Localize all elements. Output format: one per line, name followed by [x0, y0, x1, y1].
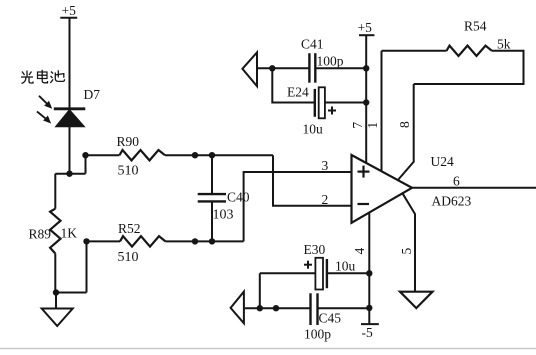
svg-text:103: 103 [213, 208, 234, 223]
svg-text:5: 5 [399, 248, 414, 255]
power -5 rail [361, 323, 379, 325]
ground (bottom left) [42, 309, 73, 327]
capacitor E30 (electrolytic) [315, 258, 327, 290]
ground arrow (bottom bypass) [231, 292, 244, 324]
wire R52 right lead [165, 240, 243, 242]
wire output pin 6 [412, 187, 536, 189]
wire R90 left lead [86, 154, 120, 156]
wire node A up to R90 rail [85, 155, 87, 174]
svg-text:U24: U24 [431, 154, 454, 169]
junction dot [269, 65, 275, 71]
svg-text:C41: C41 [301, 37, 324, 52]
resistor R54 [447, 46, 492, 56]
bottom separator [0, 348, 536, 350]
svg-text:D7: D7 [84, 87, 101, 102]
svg-text:510: 510 [118, 164, 139, 179]
svg-text:5k: 5k [497, 37, 511, 52]
wire R52 left lead [87, 240, 121, 242]
svg-text:4: 4 [352, 248, 367, 255]
svg-text:100p: 100p [304, 327, 331, 342]
ground node wire (bottom left) [55, 292, 86, 294]
svg-text:8: 8 [397, 121, 412, 128]
wire arrow to C45 [244, 307, 311, 309]
C40 top lead wire [211, 155, 213, 194]
capacitor C45 [311, 293, 318, 325]
svg-text:10u: 10u [335, 259, 356, 274]
junction dot R52 left [83, 238, 89, 244]
photocell label 光电池 (drawn glyphs) [21, 70, 65, 84]
photodiode D7 [54, 109, 86, 127]
wire E30 left lead [260, 272, 316, 274]
svg-text:E24: E24 [287, 85, 309, 100]
wire pin 5 [403, 193, 416, 291]
svg-text:10u: 10u [303, 122, 324, 137]
wire E30 right to pin4 rail [327, 272, 369, 274]
light arrow 2 into D7 [37, 112, 51, 124]
svg-text:AD623: AD623 [432, 194, 472, 209]
wire R90 right lead [165, 154, 273, 156]
ground arrow (top bypass) [242, 52, 257, 86]
op-amp U24 triangle [352, 155, 413, 223]
wire D7 anode down to node A [69, 127, 71, 174]
wire arrow to C41 [257, 67, 309, 69]
capacitor C41 [309, 53, 315, 82]
junction dot ground node [53, 289, 59, 295]
wire to ground symbol [55, 293, 57, 309]
wire R52 left to ground node [86, 241, 88, 292]
svg-text:+5: +5 [62, 3, 77, 18]
svg-text:6: 6 [453, 174, 460, 189]
op-amp minus symbol [358, 203, 370, 205]
ground (right, under pin 5) [400, 292, 433, 308]
svg-text:7: 7 [350, 122, 365, 129]
node A junction [66, 171, 72, 177]
wire pin 1 vertical [381, 51, 383, 172]
svg-text:R89: R89 [29, 227, 52, 242]
junction dot [366, 305, 372, 311]
svg-text:+5: +5 [358, 20, 373, 35]
svg-text:R54: R54 [464, 19, 487, 34]
resistor R52 [120, 236, 165, 246]
svg-text:R52: R52 [118, 221, 141, 236]
svg-text:E30: E30 [304, 242, 326, 257]
svg-text:3: 3 [322, 158, 329, 173]
resistor R90 [120, 150, 165, 160]
E30 plus mark [304, 261, 312, 269]
wire E24 right to +5 rail [325, 102, 366, 104]
E24 plus mark [328, 107, 336, 115]
junction dot [257, 305, 263, 311]
svg-text:-5: -5 [362, 325, 373, 340]
wire down to inverting input [273, 155, 352, 206]
wire pin 7 supply vertical [365, 35, 367, 163]
svg-text:1: 1 [365, 122, 380, 129]
R89 top lead wire [54, 174, 56, 209]
wire pin 4 vertical [368, 214, 370, 325]
power +5 rail (left) [60, 17, 77, 19]
wire +5 to D7 cathode [69, 18, 71, 109]
node junction at R90 rail [82, 152, 88, 158]
capacitor C40 [198, 194, 226, 201]
wire pin 8 [398, 84, 414, 180]
resistor R89 [50, 209, 60, 254]
node A horizontal wire [55, 173, 85, 175]
svg-text:2: 2 [322, 192, 329, 207]
svg-text:100p: 100p [317, 54, 344, 69]
power +5 rail (middle top) [359, 34, 374, 36]
junction dot [366, 270, 372, 276]
svg-text:C40: C40 [227, 190, 250, 205]
wire up to non-inverting input [244, 172, 352, 241]
wire R54 left lead [382, 50, 447, 52]
junction dot [363, 99, 369, 105]
wire C45 right to pin4 rail [318, 307, 370, 309]
light arrow 1 into D7 [39, 96, 52, 109]
wire E30 node down to C45 rail [259, 273, 261, 308]
junction dot [192, 152, 198, 158]
svg-text:R90: R90 [117, 134, 140, 149]
junction dot [273, 305, 279, 311]
svg-text:C45: C45 [319, 311, 342, 326]
op-amp plus symbol [358, 166, 370, 178]
junction dot [209, 238, 215, 244]
wire C41 right to +5 rail [315, 67, 366, 69]
wire arrow node down to E24 [272, 68, 315, 102]
wire R54 right lead and loop down [414, 51, 524, 84]
capacitor E24 (electrolytic) [315, 87, 325, 118]
R89 bottom lead wire [54, 254, 56, 293]
svg-text:1K: 1K [61, 226, 78, 241]
C40 bottom lead wire [211, 201, 213, 241]
junction dot [209, 152, 215, 158]
junction dot [363, 65, 369, 71]
junction dot [192, 238, 198, 244]
svg-text:510: 510 [118, 250, 139, 265]
